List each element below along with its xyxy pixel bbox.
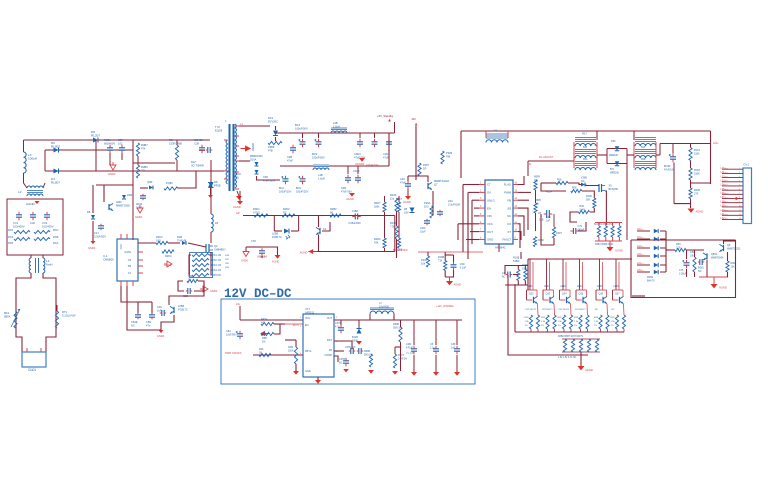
- svg-text:NC: NC: [283, 210, 287, 214]
- svg-text:P0D: P0D: [225, 263, 230, 265]
- svg-text:18V: 18V: [404, 210, 409, 214]
- svg-text:FAULT: FAULT: [503, 238, 512, 242]
- svg-text:Q2: Q2: [214, 244, 218, 248]
- svg-text:RL207: RL207: [91, 133, 100, 137]
- svg-text:27k: 27k: [141, 168, 146, 172]
- svg-text:AGND: AGND: [696, 210, 704, 214]
- svg-text:47uF: 47uF: [287, 158, 293, 162]
- svg-text:1K: 1K: [188, 277, 191, 281]
- svg-text:SC: SC: [507, 214, 511, 218]
- svg-text:L02+—: L02+—: [721, 217, 729, 220]
- svg-text:L01+—: L01+—: [721, 171, 729, 174]
- svg-text:10uF: 10uF: [420, 230, 426, 233]
- svg-text:L05B: L05B: [272, 232, 278, 236]
- svg-text:AGND: AGND: [300, 251, 308, 255]
- svg-text:C1D2: C1D2: [353, 170, 360, 173]
- svg-text:2k49: 2k49: [580, 208, 586, 211]
- svg-text:C52E: C52E: [131, 320, 138, 324]
- svg-text:C37B 103: C37B 103: [345, 347, 356, 349]
- svg-text:510k: 510k: [694, 152, 700, 155]
- svg-text:Q36: Q36: [599, 293, 604, 296]
- svg-text:CX: CX: [507, 222, 511, 226]
- svg-text:200K: 200K: [288, 349, 294, 352]
- svg-text:P0T18UT1: P0T18UT1: [559, 309, 570, 311]
- svg-text:1uF: 1uF: [546, 219, 551, 222]
- svg-text:47k: 47k: [141, 146, 146, 150]
- svg-text:5L47B L47D L47Z: 5L47B L47D L47Z: [594, 224, 613, 226]
- svg-text:GND: GND: [487, 238, 493, 242]
- svg-text:P29A: P29A: [424, 201, 431, 205]
- svg-text:0.1uF: 0.1uF: [460, 266, 467, 269]
- svg-text:183k: 183k: [374, 205, 380, 208]
- svg-text:L00+—: L00+—: [721, 209, 729, 212]
- svg-text:L4B: L4B: [318, 173, 323, 177]
- svg-text:RXC: RXC: [53, 228, 59, 232]
- svg-text:VCC: VCC: [305, 317, 310, 320]
- svg-text:R23K: R23K: [390, 193, 397, 197]
- svg-text:0.68uF/50V: 0.68uF/50V: [348, 222, 361, 225]
- svg-text:500/1%: 500/1%: [364, 353, 373, 356]
- svg-text:R2K3: R2K3: [156, 235, 163, 239]
- svg-text:47Ω: 47Ω: [234, 175, 239, 179]
- svg-text:78k: 78k: [446, 154, 451, 158]
- svg-text:R2K4: R2K4: [165, 254, 172, 258]
- svg-text:L02+—: L02+—: [637, 246, 645, 248]
- svg-text:R0D1: R0D1: [253, 207, 260, 211]
- svg-text:RXA: RXA: [53, 241, 59, 245]
- svg-text:Q0R: Q0R: [147, 180, 152, 184]
- svg-text:+5V_Standby: +5V_Standby: [377, 114, 394, 118]
- svg-text:MMBT3904: MMBT3904: [711, 256, 724, 259]
- svg-text:BL-ON/OFF: BL-ON/OFF: [393, 248, 408, 252]
- svg-text:10uH/0B: 10uH/0B: [379, 305, 389, 308]
- svg-text:EN: EN: [305, 324, 309, 327]
- svg-text:RL807: RL807: [51, 144, 60, 148]
- svg-text:1%: 1%: [541, 325, 544, 327]
- svg-text:10uF/50V: 10uF/50V: [226, 333, 237, 336]
- svg-text:47uF: 47uF: [383, 155, 389, 159]
- svg-text:AGND: AGND: [233, 205, 241, 209]
- svg-text:P0E: P0E: [225, 267, 230, 269]
- svg-text:D8: D8: [87, 210, 91, 214]
- svg-text:P0C: P0C: [225, 259, 230, 261]
- svg-text:NC: NC: [131, 323, 135, 327]
- svg-text:27K: 27K: [694, 192, 699, 195]
- svg-text:GND0: GND0: [157, 334, 165, 338]
- svg-text:Q37: Q37: [615, 293, 620, 296]
- svg-text:C3U: C3U: [157, 305, 162, 309]
- svg-text:5K: 5K: [330, 210, 333, 214]
- svg-text:XT: XT: [507, 230, 511, 234]
- svg-text:AGND: AGND: [346, 197, 354, 201]
- svg-text:2.2k: 2.2k: [676, 246, 681, 249]
- svg-text:100uH: 100uH: [28, 156, 37, 160]
- svg-text:BC847B: BC847B: [609, 188, 619, 191]
- svg-text:L08+—: L08+—: [721, 200, 729, 203]
- svg-text:4R22: 4R22: [136, 202, 143, 206]
- svg-text:BAV70: BAV70: [647, 279, 655, 282]
- svg-text:R2D0: R2D0: [234, 172, 241, 176]
- svg-text:RT1: RT1: [62, 310, 68, 314]
- svg-text:C1B0: C1B0: [352, 210, 359, 213]
- svg-text:1uF: 1uF: [451, 346, 456, 349]
- svg-text:GND0: GND0: [135, 215, 143, 219]
- svg-text:BYV26C: BYV26C: [268, 119, 278, 123]
- svg-text:P0T18UT1: P0T18UT1: [526, 309, 537, 311]
- svg-text:PF0E: PF0E: [214, 183, 221, 187]
- svg-text:43K: 43K: [374, 241, 379, 244]
- svg-text:GND: GND: [305, 370, 311, 373]
- svg-text:GND0: GND0: [210, 289, 218, 293]
- svg-text:L09+—: L09+—: [721, 205, 729, 208]
- svg-text:R5A: R5A: [583, 158, 588, 161]
- svg-text:OUT: OUT: [327, 317, 333, 320]
- svg-text:47ΩQ: 47ΩQ: [253, 210, 260, 214]
- svg-text:R2K4 1%: R2K4 1%: [211, 269, 222, 272]
- svg-text:VCC: VCC: [487, 222, 493, 226]
- svg-text:102: 102: [118, 141, 123, 145]
- svg-text:C9B: C9B: [287, 155, 292, 159]
- svg-text:AGND: AGND: [719, 286, 727, 290]
- svg-text:5.1ΩL0½W: 5.1ΩL0½W: [62, 313, 76, 317]
- svg-text:BC9: BC9: [312, 152, 318, 156]
- svg-text:EQ28: EQ28: [215, 128, 223, 132]
- svg-text:R2K1 1%: R2K1 1%: [211, 254, 222, 257]
- svg-text:NC: NC: [581, 180, 585, 183]
- svg-text:L01+—: L01+—: [721, 213, 729, 216]
- svg-text:L05+—: L05+—: [637, 270, 645, 272]
- svg-text:R0B7: R0B7: [141, 143, 148, 147]
- svg-text:L01+—: L01+—: [637, 237, 645, 239]
- svg-text:1R: 1R: [423, 166, 426, 170]
- svg-text:NC: NC: [261, 321, 265, 324]
- svg-text:100uF/50V: 100uF/50V: [312, 155, 325, 159]
- svg-text:OV: OV: [487, 191, 491, 195]
- svg-text:50/8.1%: 50/8.1%: [393, 326, 403, 329]
- svg-text:Q34: Q34: [562, 293, 567, 296]
- svg-text:2.2u: 2.2u: [430, 346, 435, 349]
- svg-text:Q7: Q7: [434, 182, 438, 186]
- svg-text:47uF: 47uF: [400, 180, 406, 184]
- svg-text:100uF/25V: 100uF/25V: [279, 190, 292, 193]
- svg-text:47uF/100V: 47uF/100V: [263, 179, 276, 182]
- svg-text:CT: CT: [487, 183, 491, 187]
- svg-text:470uF: 470uF: [406, 346, 413, 349]
- svg-text:R17: R17: [582, 132, 587, 136]
- svg-text:682/400V: 682/400V: [104, 141, 115, 145]
- svg-text:RXB: RXB: [53, 235, 59, 239]
- svg-text:L2: L2: [18, 190, 22, 194]
- svg-text:COMP: COMP: [325, 354, 333, 357]
- svg-text:1%: 1%: [611, 325, 614, 327]
- svg-text:1%: 1%: [558, 325, 561, 327]
- svg-text:510K: 510K: [694, 172, 700, 175]
- svg-text:C0D3: C0D3: [354, 152, 361, 156]
- svg-text:4.7n: 4.7n: [335, 325, 340, 328]
- svg-text:C7D: C7D: [251, 240, 256, 243]
- svg-text:CM6800: CM6800: [103, 257, 114, 261]
- svg-text:Q32: Q32: [529, 293, 534, 296]
- svg-text:24v: 24v: [236, 302, 241, 306]
- svg-text:47n: 47n: [146, 323, 151, 327]
- svg-text:AP3841: AP3841: [495, 246, 506, 250]
- svg-text:L04+—: L04+—: [721, 184, 729, 187]
- svg-text:CN1: CN1: [743, 163, 749, 167]
- svg-text:R2K3 1%: R2K3 1%: [211, 264, 222, 267]
- svg-text:VIN: VIN: [487, 214, 492, 218]
- svg-text:D50: D50: [611, 140, 616, 143]
- svg-text:L00+—: L00+—: [637, 229, 645, 231]
- svg-text:GND0: GND0: [88, 246, 96, 250]
- svg-text:GND0: GND0: [164, 263, 172, 267]
- svg-text:1%: 1%: [574, 325, 577, 327]
- svg-text:L0B: L0B: [333, 121, 338, 125]
- svg-text:24V: 24V: [412, 118, 417, 121]
- svg-text:R2D2: R2D2: [283, 207, 290, 211]
- svg-text:50K: 50K: [586, 198, 591, 201]
- svg-text:P0T18UT1: P0T18UT1: [575, 309, 586, 311]
- svg-text:L05B: L05B: [178, 304, 184, 308]
- svg-text:0.4R/1%: 0.4R/1%: [398, 357, 408, 360]
- svg-text:3K: 3K: [259, 351, 262, 354]
- svg-text:FLAG: FLAG: [504, 183, 511, 187]
- svg-text:51B: 51B: [583, 147, 588, 149]
- svg-text:L02+—: L02+—: [721, 175, 729, 178]
- svg-text:RX4: RX4: [8, 235, 14, 239]
- svg-text:R3: R3: [169, 138, 173, 142]
- svg-text:MRE160: MRE160: [609, 155, 619, 157]
- svg-text:CV2: CV2: [42, 221, 48, 225]
- svg-text:MMBT2222A: MMBT2222A: [434, 179, 449, 183]
- svg-text:R3B3: R3B3: [330, 207, 337, 211]
- svg-text:RL-ADJUST: RL-ADJUST: [539, 155, 554, 159]
- svg-text:1.6uH: 1.6uH: [318, 176, 325, 180]
- svg-text:Q33: Q33: [546, 293, 551, 296]
- svg-text:R5B: R5B: [641, 159, 646, 161]
- svg-text:AGND: AGND: [585, 368, 593, 372]
- svg-text:GND0: GND0: [108, 172, 116, 176]
- svg-text:1bF: 1bF: [157, 308, 162, 312]
- svg-text:100uF/25V: 100uF/25V: [296, 190, 309, 193]
- svg-text:P299: P299: [446, 151, 453, 155]
- svg-text:BC4: BC4: [295, 123, 301, 127]
- svg-text:P2B9: P2B9: [268, 145, 275, 149]
- svg-text:FB: FB: [128, 265, 132, 268]
- svg-text:R2K2 1%: R2K2 1%: [211, 259, 222, 262]
- svg-text:RX5: RX5: [8, 241, 14, 245]
- svg-text:47uF/16V: 47uF/16V: [341, 190, 352, 193]
- svg-text:3.05uF: 3.05uF: [679, 272, 687, 275]
- svg-text:R3B0 R3B7 R2Y8 R07S: R3B0 R3B7 R2Y8 R07S: [558, 336, 583, 338]
- svg-text:NC: NC: [612, 309, 616, 311]
- svg-text:B71: B71: [610, 169, 615, 171]
- svg-text:OUT: OUT: [487, 230, 493, 234]
- svg-text:3.3uF/50V: 3.3uF/50V: [94, 234, 106, 238]
- svg-text:153K/2WB: 153K/2WB: [169, 141, 182, 145]
- svg-text:P097: P097: [423, 163, 430, 167]
- svg-text:R38C R38D X30L: R38C R38D X30L: [595, 244, 614, 246]
- svg-text:AGND: AGND: [615, 249, 623, 253]
- svg-text:R0E: R0E: [188, 274, 193, 278]
- svg-text:RL807: RL807: [51, 180, 60, 184]
- svg-text:100uF/50V: 100uF/50V: [295, 126, 308, 130]
- svg-text:102/400V: 102/400V: [42, 224, 54, 228]
- svg-text:P0T18UT1: P0T18UT1: [542, 309, 553, 311]
- svg-text:RC0L: RC0L: [104, 138, 111, 142]
- svg-text:L03+—: L03+—: [637, 254, 645, 256]
- svg-text:R23K: R23K: [390, 221, 397, 225]
- svg-text:L06+—: L06+—: [721, 192, 729, 195]
- svg-text:L00+: L00+: [713, 142, 719, 145]
- svg-text:C38: C38: [194, 141, 199, 145]
- svg-text:Ra7: Ra7: [191, 160, 196, 164]
- svg-text:GND0: GND0: [241, 260, 249, 263]
- svg-text:EN: EN: [487, 206, 491, 210]
- svg-text:FB: FB: [507, 198, 511, 202]
- svg-text:L8: L8: [215, 221, 219, 225]
- svg-text:R30T: R30T: [556, 232, 562, 235]
- svg-text:C40: C40: [400, 177, 405, 181]
- svg-text:P230: P230: [421, 258, 428, 262]
- svg-text:1K0: 1K0: [424, 204, 429, 208]
- svg-text:47B: 47B: [268, 148, 273, 152]
- svg-text:AGND: AGND: [454, 283, 462, 287]
- svg-text:1.5k 1.5k 4.7k NC: 1.5k 1.5k 4.7k NC: [558, 357, 577, 359]
- svg-text:AP5012: AP5012: [305, 310, 315, 314]
- svg-text:18Ω: 18Ω: [156, 238, 161, 242]
- svg-text:CV1: CV1: [13, 221, 19, 225]
- svg-text:EN 3: EN 3: [293, 324, 299, 327]
- svg-text:1%: 1%: [525, 325, 528, 327]
- svg-text:AGND: AGND: [251, 143, 255, 151]
- svg-text:D1S: D1S: [268, 116, 273, 120]
- svg-text:NC: NC: [698, 270, 702, 273]
- svg-text:SI4848DY: SI4848DY: [214, 247, 226, 251]
- svg-text:D8: D8: [214, 180, 218, 184]
- svg-text:7.5k: 7.5k: [390, 224, 396, 228]
- svg-text:NC: NC: [502, 275, 506, 278]
- svg-text:U71: U71: [305, 307, 310, 311]
- svg-text:BST: BST: [327, 339, 332, 342]
- svg-text:L05+—: L05+—: [721, 188, 729, 191]
- svg-text:L00+—: L00+—: [721, 167, 729, 170]
- svg-text:PC817C: PC817C: [272, 235, 282, 239]
- svg-text:NC: NC: [339, 361, 343, 364]
- svg-text:RX3: RX3: [8, 228, 14, 232]
- svg-text:K3: K3: [323, 227, 327, 231]
- svg-text:P08: P08: [572, 187, 577, 190]
- svg-text:VCC: VCC: [119, 244, 123, 250]
- svg-text:AGND: AGND: [272, 261, 279, 264]
- svg-text:R2K5 NC: R2K5 NC: [211, 274, 222, 277]
- svg-text:47uF/16V: 47uF/16V: [664, 168, 675, 171]
- svg-text:FB½L: FB½L: [305, 349, 312, 353]
- svg-text:AGND2: AGND2: [355, 162, 365, 166]
- svg-text:NC: NC: [595, 309, 599, 311]
- svg-text:L0A: L0A: [493, 130, 498, 133]
- svg-text:UNLO: UNLO: [487, 198, 496, 202]
- svg-text:MB405: MB405: [194, 138, 203, 142]
- svg-text:C32: C32: [30, 221, 35, 225]
- svg-text:51B: 51B: [641, 147, 646, 149]
- svg-text:Q35: Q35: [579, 293, 584, 296]
- svg-text:R2B0: R2B0: [141, 165, 148, 169]
- svg-text:TN4148: TN4148: [177, 238, 187, 242]
- svg-text:CN01: CN01: [28, 368, 36, 372]
- svg-text:D2R: D2R: [177, 235, 182, 239]
- svg-text:103/400V: 103/400V: [13, 224, 25, 228]
- svg-text:B3: B3: [508, 206, 512, 210]
- svg-text:AP: AP: [236, 211, 240, 215]
- svg-text:MMBT2N60: MMBT2N60: [116, 203, 130, 207]
- svg-text:10k: 10k: [421, 261, 426, 265]
- svg-text:GM0: GM0: [116, 200, 122, 204]
- svg-text:P0B: P0B: [225, 255, 230, 257]
- svg-text:AGND: AGND: [403, 200, 411, 204]
- svg-text:3.3uF/52W: 3.3uF/52W: [448, 203, 461, 206]
- svg-text:11k: 11k: [390, 196, 395, 200]
- svg-text:MRE160: MRE160: [610, 172, 620, 174]
- svg-text:PWR ON/OFF: PWR ON/OFF: [225, 351, 242, 355]
- svg-text:+12V_NORMAL: +12V_NORMAL: [436, 305, 455, 308]
- svg-text:1.6uH: 1.6uH: [333, 124, 340, 128]
- svg-text:D10A: D10A: [250, 158, 257, 161]
- svg-text:MMBT2222L: MMBT2222L: [727, 247, 741, 250]
- svg-text:GATE: GATE: [124, 251, 131, 254]
- svg-text:51BΩ: 51BΩ: [513, 260, 519, 263]
- svg-text:AGND: AGND: [26, 202, 36, 206]
- svg-text:5B0K: 5B0K: [4, 314, 11, 318]
- svg-text:1%: 1%: [594, 325, 597, 327]
- svg-text:C17: C17: [94, 231, 99, 235]
- svg-text:6mH: 6mH: [46, 262, 53, 266]
- svg-text:C5E: C5E: [146, 320, 151, 324]
- svg-text:L03+—: L03+—: [721, 179, 729, 182]
- svg-text:L07+—: L07+—: [721, 196, 729, 199]
- svg-text:PWM: PWM: [504, 191, 512, 195]
- svg-text:1M: 1M: [262, 340, 265, 343]
- svg-text:PC817C: PC817C: [178, 307, 188, 311]
- svg-text:MF1: MF1: [4, 311, 10, 315]
- svg-text:FB: FB: [329, 349, 333, 352]
- svg-text:L04+—: L04+—: [637, 263, 645, 265]
- svg-text:D3R: D3R: [127, 193, 132, 197]
- svg-text:PQ80: PQ80: [166, 181, 173, 185]
- svg-text:C0P: C0P: [118, 138, 123, 142]
- svg-text:3O.T/9WR: 3O.T/9WR: [191, 163, 204, 167]
